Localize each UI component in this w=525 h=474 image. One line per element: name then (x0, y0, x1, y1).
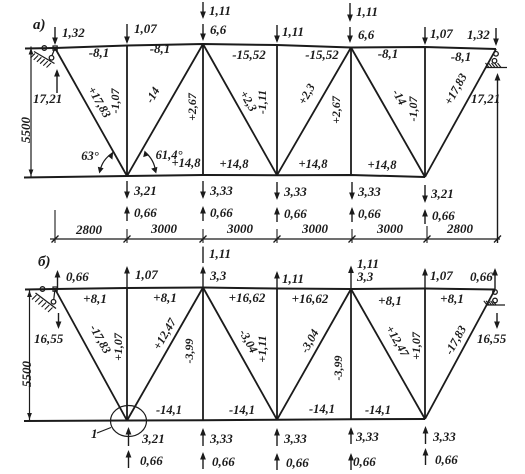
dimension tick 4 (274, 236, 281, 243)
load arrow 1,11 apex2 A (349, 3, 351, 20)
svg-text:3,33: 3,33 (209, 431, 233, 446)
load arrow apex2 B (350, 268, 352, 290)
svg-text:0,66: 0,66 (358, 206, 381, 221)
svg-text:+2,67: +2,67 (185, 92, 199, 121)
load arrow 1,32 right A (495, 28, 497, 44)
bottom load arrow 0,66 n5 A (424, 211, 426, 224)
dimension tick 1 (52, 236, 59, 243)
dimension tick 7 (494, 236, 501, 243)
svg-text:-14,1: -14,1 (229, 403, 255, 417)
svg-text:5500: 5500 (18, 117, 33, 144)
extension line x203 (202, 229, 204, 243)
truss A top chord (25, 44, 496, 49)
dimension line (50, 238, 500, 240)
svg-text:+14,8: +14,8 (299, 157, 329, 171)
load arrow 1,07 right B (424, 270, 426, 289)
svg-text:0,66: 0,66 (353, 454, 376, 469)
svg-text:61,4°: 61,4° (156, 148, 183, 162)
svg-text:1,11: 1,11 (282, 271, 304, 286)
svg-text:-14,1: -14,1 (309, 402, 335, 416)
support A left node (53, 46, 57, 50)
load arrow 1,07 left B (126, 268, 128, 288)
support B left lower circle (54, 289, 55, 299)
svg-text:16,55: 16,55 (477, 331, 507, 346)
svg-text:3000: 3000 (301, 221, 329, 236)
svg-text:-14,1: -14,1 (156, 403, 182, 417)
member A diagonal -14 right (351, 48, 425, 178)
member B vertical -3,99 left (202, 288, 204, 421)
extension line x127 (126, 229, 128, 243)
svg-text:3,33: 3,33 (355, 429, 379, 444)
member B diagonal -3,04 left (203, 288, 277, 420)
vertical dimension 5500 B (29, 289, 31, 421)
svg-text:1: 1 (91, 426, 98, 441)
svg-text:+14,8: +14,8 (220, 157, 250, 171)
svg-text:3,21: 3,21 (430, 186, 454, 201)
svg-text:1,11: 1,11 (209, 3, 231, 18)
svg-text:-3,99: -3,99 (331, 356, 345, 381)
load arrow 0,66 right B (494, 270, 496, 289)
svg-text:17,21: 17,21 (471, 91, 500, 106)
svg-text:-14,1: -14,1 (365, 403, 391, 417)
vertical dimension 5500 A (30, 47, 32, 178)
svg-text:-1,07: -1,07 (108, 88, 122, 114)
svg-text:0,66: 0,66 (435, 452, 458, 467)
svg-text:+2,67: +2,67 (329, 95, 343, 124)
extension line x427 (426, 226, 428, 243)
svg-text:0,66: 0,66 (470, 269, 493, 284)
dimension tick 5 (349, 236, 356, 243)
bottom load arrow 3,21 n5 A (424, 185, 426, 201)
svg-text:-8,1: -8,1 (378, 46, 399, 61)
dimension tick 2 (124, 236, 131, 243)
svg-text:2800: 2800 (75, 222, 103, 237)
load arrow 6,6 apex1 A (202, 24, 204, 39)
svg-text:16,55: 16,55 (34, 331, 64, 346)
extension line x352 (351, 229, 353, 243)
support A right pin circle (494, 52, 499, 57)
svg-text:1,11: 1,11 (356, 4, 378, 19)
svg-text:+1,07: +1,07 (111, 332, 125, 361)
member B vertical +1,07 left (126, 288, 128, 421)
bottom load arrow 0,66 n4 A (351, 209, 353, 222)
svg-text:0,66: 0,66 (210, 205, 233, 220)
svg-text:+17,83: +17,83 (441, 71, 470, 107)
reaction arrow 16,55 right B (496, 313, 498, 327)
member A vertical -1,07 right (424, 47, 426, 177)
load arrow 1,11 mid A (276, 25, 278, 41)
svg-text:1,07: 1,07 (430, 26, 453, 41)
truss B bottom chord (24, 419, 425, 421)
node 1 leader line (97, 428, 111, 434)
support B right pin circle (493, 290, 498, 295)
load arrow 1,07 right A (424, 27, 426, 43)
bottom load arrow 3,33 n4 A (351, 182, 353, 198)
svg-text:-1,11: -1,11 (255, 90, 269, 114)
load arrow 1,11 apex1 A (202, 2, 204, 17)
bottom load arrow 0,66 n2 B (202, 454, 204, 469)
bottom load arrow 0,66 n1 B (128, 452, 130, 468)
bottom load arrow 3,33 n2 A (202, 181, 204, 197)
svg-text:2800: 2800 (446, 221, 474, 236)
svg-text:0,66: 0,66 (140, 453, 163, 468)
reaction arrow 16,55 left B (58, 313, 60, 327)
support A left pin circle (42, 46, 47, 51)
load arrow 0,66 left B (57, 272, 59, 288)
bottom load arrow 3,33 n2 B (202, 430, 204, 446)
svg-text:3,33: 3,33 (432, 429, 456, 444)
svg-text:+1,07: +1,07 (409, 331, 423, 360)
svg-text:3000: 3000 (226, 221, 254, 236)
dimension tick 3 (200, 236, 207, 243)
svg-text:-14: -14 (142, 85, 162, 106)
svg-text:6,6: 6,6 (358, 27, 375, 42)
reaction arrow 17,21 right A and extension (497, 76, 499, 243)
svg-text:-15,52: -15,52 (232, 47, 266, 62)
svg-text:0,66: 0,66 (286, 455, 309, 470)
svg-text:1,11: 1,11 (209, 246, 231, 261)
svg-text:б): б) (38, 254, 50, 270)
svg-text:а): а) (33, 17, 46, 33)
svg-text:1,07: 1,07 (135, 267, 158, 282)
member A diagonal +17,83 left (55, 48, 127, 176)
svg-text:-8,1: -8,1 (150, 41, 171, 56)
svg-text:1,07: 1,07 (430, 268, 453, 283)
member B diagonal -17,83 left (55, 289, 127, 421)
bottom load arrow 3,33 n4 B (350, 429, 352, 444)
svg-text:+8,1: +8,1 (83, 291, 107, 306)
load arrow 6,6 apex2 A (349, 27, 351, 41)
bottom load arrow 3,33 n3 A (276, 182, 278, 198)
svg-text:3,33: 3,33 (357, 184, 381, 199)
svg-text:+14,8: +14,8 (368, 158, 398, 172)
member A vertical +2,67 left (202, 44, 204, 175)
svg-text:-3,04: -3,04 (297, 327, 321, 356)
member B diagonal +12,47 left (127, 288, 203, 421)
svg-text:3,21: 3,21 (141, 431, 165, 446)
bottom load arrow 0,66 n3 B (276, 455, 278, 470)
svg-text:-8,1: -8,1 (451, 49, 472, 64)
member A diagonal +17,83 right (425, 49, 496, 177)
svg-text:-1,07: -1,07 (406, 96, 420, 122)
member A diagonal +2,3 left (203, 44, 277, 175)
bottom load arrow 3,21 n1 B (128, 429, 130, 446)
support B left ground (36, 293, 57, 309)
support A right lower circle (492, 59, 497, 64)
member B vertical -3,99 right (350, 289, 352, 419)
svg-text:1,32: 1,32 (467, 27, 490, 42)
angle arc 63deg (100, 154, 112, 172)
member A vertical -1,07 left (126, 46, 128, 177)
svg-text:3,3: 3,3 (209, 268, 227, 283)
svg-text:3,33: 3,33 (209, 183, 233, 198)
angle arc 61,4deg (146, 153, 156, 172)
svg-text:+1,11: +1,11 (255, 335, 269, 362)
svg-text:0,66: 0,66 (212, 454, 235, 469)
svg-text:63°: 63° (81, 149, 99, 163)
member A diagonal -14 left (127, 44, 203, 176)
svg-text:-8,1: -8,1 (89, 45, 110, 60)
svg-text:17,21: 17,21 (33, 91, 62, 106)
bottom load arrow 3,21 n1 A (126, 181, 128, 197)
svg-text:+2,3: +2,3 (295, 81, 318, 107)
svg-text:+16,62: +16,62 (292, 291, 329, 306)
truss B top chord (25, 288, 495, 290)
load arrow 1,11 mid B (276, 273, 278, 289)
svg-text:3,3: 3,3 (356, 269, 374, 284)
svg-text:+8,1: +8,1 (153, 290, 177, 305)
svg-text:+8,1: +8,1 (440, 291, 464, 306)
member B vertical +1,07 right (424, 289, 426, 420)
support B right ground (487, 304, 505, 306)
support B right lower circle (493, 298, 498, 303)
bottom load arrow 0,66 n2 A (202, 208, 204, 221)
svg-text:-15,52: -15,52 (305, 47, 339, 62)
extension line x55 (54, 210, 56, 243)
svg-text:6,6: 6,6 (210, 22, 227, 37)
member B diagonal -17,83 right (425, 290, 495, 420)
load line 1,11 apex1 B (202, 247, 204, 263)
svg-text:5500: 5500 (19, 361, 34, 388)
load arrow 3,3 apex1 B (202, 268, 204, 288)
svg-text:-3,99: -3,99 (182, 339, 196, 364)
member B diagonal -3,04 right (277, 289, 351, 420)
member A diagonal +2,3 right (277, 48, 351, 176)
svg-text:3000: 3000 (376, 221, 404, 236)
bottom load arrow 0,66 n3 A (276, 209, 278, 222)
svg-text:0,66: 0,66 (284, 206, 307, 221)
load arrow 1,07 left A (126, 24, 128, 42)
svg-text:1,07: 1,07 (134, 21, 157, 36)
svg-text:3000: 3000 (150, 221, 178, 236)
svg-text:3,33: 3,33 (283, 431, 307, 446)
svg-text:+8,1: +8,1 (378, 293, 402, 308)
svg-text:3,33: 3,33 (283, 184, 307, 199)
extension line x277 (276, 229, 278, 243)
svg-text:3,21: 3,21 (133, 183, 157, 198)
member B diagonal +12,47 right (351, 289, 425, 419)
bottom load arrow 3,33 n5 B (425, 428, 427, 444)
bottom load arrow 0,66 n1 A (126, 208, 128, 221)
support B left node (53, 287, 57, 291)
svg-text:-17,83: -17,83 (442, 323, 469, 357)
member A vertical -1,11 mid (276, 45, 278, 175)
svg-text:1,32: 1,32 (62, 25, 85, 40)
svg-text:0,66: 0,66 (66, 269, 89, 284)
bottom load arrow 3,33 n3 B (276, 430, 278, 446)
svg-text:+16,62: +16,62 (229, 290, 266, 305)
reaction arrow 17,21 left A (56, 71, 58, 93)
svg-text:+12,47: +12,47 (150, 315, 180, 352)
bottom load arrow 0,66 n5 B (425, 450, 427, 465)
load arrow 1,32 left A (54, 27, 56, 43)
member B vertical +1,11 mid (276, 289, 278, 420)
dimension tick 6 (424, 236, 431, 243)
bottom load arrow 0,66 n4 B (350, 455, 352, 470)
node 1 detail circle (111, 406, 147, 437)
support A left lower circle (52, 48, 55, 56)
truss A bottom chord (24, 175, 425, 178)
member A vertical +2,67 right (350, 48, 352, 176)
support B left pin circle (40, 287, 45, 292)
support A left ground (34, 52, 55, 64)
support A right ground (486, 67, 507, 69)
svg-text:1,11: 1,11 (282, 24, 304, 39)
svg-text:0,66: 0,66 (134, 205, 157, 220)
